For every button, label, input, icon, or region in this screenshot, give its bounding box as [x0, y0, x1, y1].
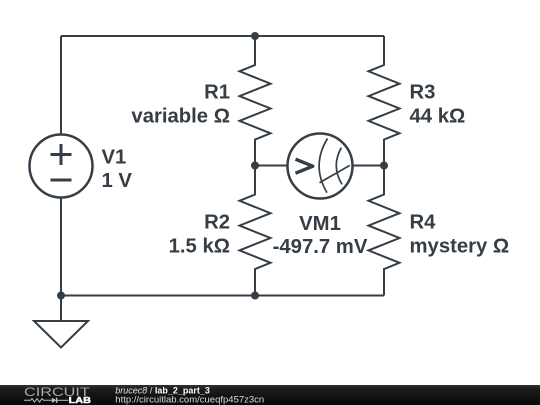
VM1 small arc [336, 148, 342, 185]
voltage source V1 circle [30, 135, 93, 198]
junction dot bottom left ground [57, 292, 65, 300]
VM1 greater-than symbol [296, 159, 313, 173]
svg-text:44 kΩ: 44 kΩ [410, 105, 466, 127]
svg-text:http://circuitlab.com/cueqfp45: http://circuitlab.com/cueqfp457z3cn [115, 394, 264, 405]
svg-text:R1: R1 [204, 82, 230, 104]
svg-text:1 V: 1 V [102, 170, 133, 192]
resistor R3 [369, 36, 400, 166]
junction dot top middle [251, 32, 259, 40]
ground stem [60, 296, 62, 322]
svg-text:VM1: VM1 [299, 213, 341, 235]
svg-text:variable Ω: variable Ω [131, 105, 230, 127]
wire bottom horizontal [61, 295, 384, 297]
svg-text:R2: R2 [204, 212, 230, 234]
svg-text:R3: R3 [410, 82, 436, 104]
junction dot mid right node [380, 162, 388, 170]
resistor R2 [240, 166, 271, 296]
wire left vertical lower [60, 198, 62, 296]
wire VM1 left lead [255, 165, 288, 167]
resistor R1 [240, 36, 271, 166]
svg-text:R4: R4 [410, 211, 437, 233]
VM1 big arc [319, 139, 327, 193]
resistor R4 [369, 166, 400, 296]
VM1 needle line [320, 165, 350, 182]
svg-text:1.5 kΩ: 1.5 kΩ [169, 236, 230, 258]
voltmeter VM1 circle [288, 134, 353, 199]
wire left vertical upper [60, 36, 62, 135]
logo diode [52, 398, 57, 403]
wire VM1 right lead [353, 165, 385, 167]
V1 plus sign [51, 144, 72, 165]
footer bar [0, 385, 540, 405]
junction dot bottom middle [251, 292, 259, 300]
svg-text:LAB: LAB [69, 395, 91, 405]
svg-text:mystery Ω: mystery Ω [410, 236, 510, 258]
ground triangle [34, 321, 88, 348]
svg-text:-497.7 mV: -497.7 mV [273, 236, 368, 258]
junction dot mid left node [251, 162, 259, 170]
wire top horizontal [61, 35, 384, 37]
V1 minus sign [51, 179, 72, 182]
logo resistor squiggle [24, 399, 52, 402]
svg-text:V1: V1 [102, 147, 127, 169]
